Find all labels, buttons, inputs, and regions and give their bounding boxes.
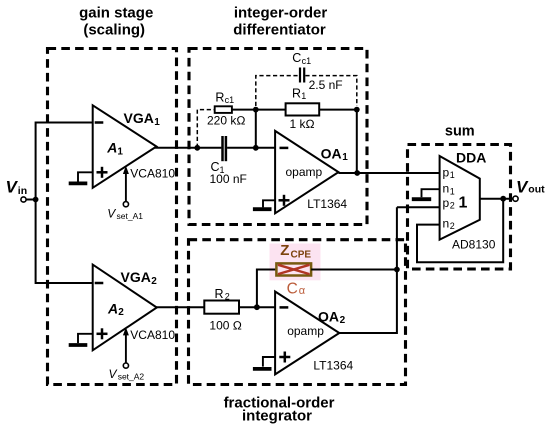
R1 label xyxy=(290,87,315,132)
svg-text:LT1364: LT1364 xyxy=(313,358,353,372)
fractional-order integrator dashed box xyxy=(189,240,406,385)
svg-text:set_A1: set_A1 xyxy=(117,211,144,221)
node R1 right xyxy=(354,107,360,113)
svg-text:2: 2 xyxy=(225,292,230,302)
AD8130 label xyxy=(452,237,496,251)
node OA1 output xyxy=(354,170,360,176)
svg-text:Z: Z xyxy=(280,242,289,259)
wire Rc1 to node xyxy=(232,109,256,111)
Rc1 label xyxy=(207,91,246,128)
svg-text:2.5 nF: 2.5 nF xyxy=(309,78,343,92)
C1 value label xyxy=(210,160,247,186)
svg-text:n: n xyxy=(443,182,450,196)
svg-text:V: V xyxy=(109,367,118,381)
wire OA2 output riser to p2 xyxy=(339,207,397,333)
wire C1 to OA1 minus xyxy=(227,147,275,149)
svg-text:2: 2 xyxy=(450,221,455,231)
Cc1 label xyxy=(292,51,342,92)
svg-text:integer-order: integer-order xyxy=(234,4,328,21)
Zcpe highlight xyxy=(270,244,321,281)
svg-text:VGA: VGA xyxy=(121,269,151,285)
Vout label xyxy=(516,177,545,196)
sum heading xyxy=(445,123,475,139)
svg-text:(scaling): (scaling) xyxy=(83,21,145,38)
svg-text:VCA810: VCA810 xyxy=(130,328,175,342)
svg-text:R: R xyxy=(215,287,224,301)
pin n1 label xyxy=(443,182,455,197)
gain stage dashed box xyxy=(48,49,177,385)
sum dashed box xyxy=(408,145,511,270)
svg-text:V: V xyxy=(107,206,116,220)
svg-text:R: R xyxy=(215,91,224,105)
wire p2 to riser xyxy=(397,206,440,208)
DDA gain 1 label xyxy=(459,194,468,211)
svg-text:V: V xyxy=(516,177,529,196)
ground VGA1 xyxy=(69,172,93,183)
wire Vin to node xyxy=(26,199,35,201)
integer-order differentiator dashed box xyxy=(189,49,367,225)
wire n2 loop xyxy=(417,199,503,263)
svg-text:differentiator: differentiator xyxy=(233,21,326,38)
VGA2 label xyxy=(121,269,158,287)
svg-text:1: 1 xyxy=(154,117,160,128)
svg-text:OA: OA xyxy=(318,309,339,325)
svg-text:1: 1 xyxy=(301,91,306,101)
svg-text:p: p xyxy=(443,196,450,210)
svg-text:p: p xyxy=(443,165,450,179)
svg-text:sum: sum xyxy=(445,123,475,139)
Vout terminal xyxy=(513,196,518,201)
svg-text:2: 2 xyxy=(340,315,346,326)
svg-text:R: R xyxy=(292,87,301,101)
node Vout xyxy=(500,196,506,202)
integer-order differentiator heading xyxy=(233,4,327,38)
wire Zcpe to riser xyxy=(311,269,397,271)
resistor Rc1 xyxy=(215,106,232,113)
node Vin junction xyxy=(33,197,39,203)
wire VGA1 output to C1 xyxy=(155,147,221,149)
svg-text:2: 2 xyxy=(450,201,455,211)
svg-text:opamp: opamp xyxy=(286,165,323,179)
capacitor Cc1 xyxy=(300,68,304,83)
LT1364 label OA2 xyxy=(313,358,353,372)
svg-text:2: 2 xyxy=(151,276,157,287)
svg-text:1: 1 xyxy=(459,194,468,211)
svg-text:DDA: DDA xyxy=(456,149,486,165)
resistor R1 xyxy=(256,103,357,115)
Vin terminal xyxy=(21,197,26,202)
Calpha label xyxy=(287,280,306,297)
DDA label xyxy=(456,149,486,165)
ground OA1 xyxy=(253,200,275,209)
R2 label xyxy=(209,287,242,333)
dashed wire Cc1 right xyxy=(305,76,356,106)
svg-text:C: C xyxy=(287,280,298,297)
svg-text:in: in xyxy=(18,185,27,197)
pin n2 label xyxy=(443,216,455,231)
gain arrow VGA2 xyxy=(123,327,129,363)
pin p1 label xyxy=(443,165,455,180)
svg-text:2: 2 xyxy=(118,307,124,318)
VGA1 label xyxy=(124,110,161,128)
VCA810 label VGA2 xyxy=(130,328,175,342)
dashed wire Cc1 left xyxy=(256,76,299,106)
wire DDA output xyxy=(480,198,513,200)
svg-text:integrator: integrator xyxy=(242,408,312,425)
CPE element Zcpe xyxy=(276,263,311,275)
Vset_A2 label xyxy=(109,367,145,382)
capacitor C1 xyxy=(223,136,226,161)
node R1 left xyxy=(253,107,259,113)
svg-text:220 kΩ: 220 kΩ xyxy=(207,114,246,128)
svg-text:α: α xyxy=(299,285,306,297)
gain arrow VGA1 xyxy=(123,166,129,202)
svg-text:AD8130: AD8130 xyxy=(452,237,496,251)
node Rc1 tap xyxy=(194,145,200,151)
ground VGA2 xyxy=(69,334,93,345)
node riser junction xyxy=(394,267,400,273)
ground OA2 xyxy=(253,357,275,369)
svg-text:1 kΩ: 1 kΩ xyxy=(290,117,315,131)
LT1364 label OA1 xyxy=(307,197,347,211)
wire Vin trunk to VGA2 minus xyxy=(36,200,93,284)
svg-text:set_A2: set_A2 xyxy=(118,372,145,382)
Vset_A1 label xyxy=(107,206,143,221)
wire Vin trunk to VGA1 minus xyxy=(36,123,93,200)
resistor R2 xyxy=(204,301,275,314)
svg-text:opamp: opamp xyxy=(287,324,324,338)
VCA810 label VGA1 xyxy=(130,166,175,180)
node OA2 input xyxy=(254,304,260,310)
svg-text:c1: c1 xyxy=(225,95,235,105)
op-amp OA1 xyxy=(275,131,338,213)
svg-text:100 nF: 100 nF xyxy=(210,172,247,186)
Vin label xyxy=(6,178,28,197)
gain stage heading xyxy=(79,4,153,38)
OA2 label xyxy=(318,309,346,327)
svg-text:100 Ω: 100 Ω xyxy=(209,318,242,332)
Zcpe label xyxy=(280,242,311,260)
svg-text:OA: OA xyxy=(321,145,342,161)
svg-text:gain stage: gain stage xyxy=(79,4,153,21)
svg-text:VGA: VGA xyxy=(124,110,154,126)
opamp label OA2 xyxy=(287,324,324,338)
op-amp OA2 xyxy=(275,292,339,375)
DDA U1 xyxy=(440,156,480,240)
svg-text:c1: c1 xyxy=(302,56,312,66)
svg-text:1: 1 xyxy=(450,170,455,180)
A1 label xyxy=(106,140,123,158)
svg-text:CPE: CPE xyxy=(291,250,312,261)
svg-text:V: V xyxy=(6,178,19,197)
svg-text:n: n xyxy=(443,216,450,230)
wire VGA2 output to R2 xyxy=(155,306,204,308)
svg-text:LT1364: LT1364 xyxy=(307,197,347,211)
OA1 label xyxy=(321,145,349,163)
svg-text:A: A xyxy=(107,300,118,316)
fractional-order integrator heading xyxy=(224,394,335,424)
wire OA1 output to DDA p1 xyxy=(339,172,440,174)
svg-text:1: 1 xyxy=(117,146,123,157)
svg-text:out: out xyxy=(528,183,545,195)
svg-text:1: 1 xyxy=(450,186,455,196)
opamp label OA1 xyxy=(286,165,323,179)
svg-text:1: 1 xyxy=(342,152,348,163)
A2 label xyxy=(107,300,124,318)
op-amp VGA1 A1 xyxy=(93,105,157,188)
Vset_A2 terminal xyxy=(123,363,128,368)
svg-text:VCA810: VCA810 xyxy=(130,166,175,180)
svg-text:C: C xyxy=(292,51,301,65)
wire node to Zcpe xyxy=(257,270,277,308)
dashed wire to Rc1 xyxy=(197,110,214,148)
svg-text:A: A xyxy=(106,140,117,156)
node OA1 input xyxy=(253,145,259,151)
n1 ground xyxy=(412,189,440,199)
op-amp VGA2 A2 xyxy=(93,265,157,351)
wire node to main line xyxy=(255,110,257,148)
wire R1 right to output node xyxy=(356,110,358,173)
pin p2 label xyxy=(443,196,455,211)
Vset_A1 terminal xyxy=(123,202,128,207)
